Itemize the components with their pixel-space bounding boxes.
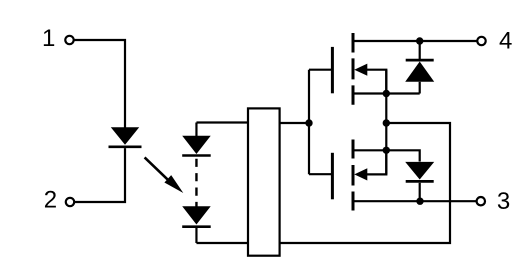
wire Q1 source stub (354, 92, 420, 94)
photodiode PD2 (bottom) (182, 206, 211, 224)
wire Q1 drain to pin 4 (354, 40, 477, 42)
wire Q2 source stub to body diode D4 (354, 150, 420, 161)
wire return loop to control block (280, 123, 450, 243)
wire to Q2 gate (309, 173, 331, 175)
photodiode PD1 (top) (195, 123, 197, 137)
transistor Q1 channel segments (352, 33, 355, 105)
wire to Q1 gate (309, 69, 331, 71)
transistor Q1 body arrow (366, 70, 386, 94)
transistor Q2 channel segments (352, 140, 355, 211)
node gate junction (305, 119, 312, 126)
pin 4 terminal (477, 37, 485, 45)
light arrow (145, 157, 170, 181)
LED D1 (111, 127, 139, 145)
node source bus to return loop (383, 119, 390, 126)
pin 3 terminal (477, 197, 485, 205)
svg-text:4: 4 (499, 28, 512, 55)
wire pin1 to LED anode (75, 40, 126, 128)
node Q2 source junction (383, 147, 390, 154)
transistor Q1 gate plate (331, 47, 334, 93)
dashed coupling wire (195, 159, 197, 207)
control block U1 (248, 108, 280, 255)
svg-text:3: 3 (497, 188, 510, 215)
wire control block output to gate node (280, 122, 309, 124)
transistor Q2 body arrow (366, 150, 386, 174)
wire LED cathode to pin2 (75, 148, 125, 202)
wire bottom rail PD2 to control block (196, 242, 248, 244)
wire PD2 cathode down to common bottom rail (195, 228, 197, 243)
wire gate bus vertical (308, 70, 310, 175)
node D3 to pin4 rail (416, 37, 423, 44)
body diode D3 of Q1 (419, 41, 421, 59)
svg-text:2: 2 (44, 187, 57, 214)
pin 2 terminal (66, 198, 74, 206)
transistor Q2 gate plate (331, 153, 334, 200)
pin 1 terminal (65, 36, 73, 44)
body diode D4 of Q2 (405, 162, 434, 180)
wire PD1 anode to control block input (196, 121, 248, 123)
svg-text:1: 1 (42, 25, 55, 52)
wire common source bus (385, 70, 387, 175)
node D4 to pin3 rail (416, 198, 423, 205)
node Q1 source junction (383, 90, 390, 97)
wire Q2 drain to pin 3 (354, 200, 476, 202)
